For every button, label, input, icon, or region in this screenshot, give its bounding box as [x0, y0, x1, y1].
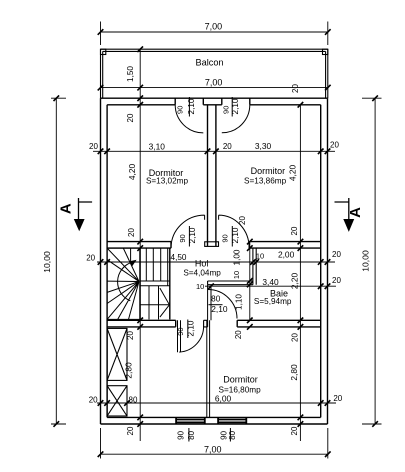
svg-text:20: 20 [290, 226, 299, 235]
svg-text:A: A [347, 207, 364, 218]
svg-text:2,10: 2,10 [188, 227, 197, 243]
svg-text:20: 20 [238, 216, 247, 225]
svg-text:10: 10 [196, 282, 204, 291]
dim line 20/3,10/20/3,30/20 [93, 150, 335, 152]
svg-text:S=13,86mp: S=13,86mp [244, 177, 287, 186]
svg-text:90: 90 [178, 234, 187, 242]
svg-text:4,20: 4,20 [288, 165, 298, 182]
door label balcony right 90/2,10 [222, 97, 241, 117]
svg-text:20: 20 [290, 426, 299, 435]
balcony rail left [101, 49, 103, 98]
thin double line through bottom room [207, 320, 210, 417]
dim line 3,40/20 [205, 285, 336, 287]
svg-text:2,10: 2,10 [187, 98, 196, 114]
middle wall between bedrooms [208, 105, 216, 246]
svg-text:20: 20 [89, 395, 98, 404]
svg-text:2,10: 2,10 [231, 227, 240, 243]
bedroom right door arc [219, 215, 250, 248]
svg-text:7,00: 7,00 [205, 21, 223, 31]
svg-text:4,50: 4,50 [171, 253, 187, 262]
outer wall bottom [101, 417, 328, 424]
svg-text:90: 90 [222, 106, 231, 114]
svg-text:20: 20 [126, 426, 135, 435]
ticks row y=286.2 [208, 283, 330, 289]
svg-text:3,40: 3,40 [262, 277, 279, 287]
dim balcony 7,00 line [101, 87, 328, 89]
svg-text:90: 90 [221, 234, 230, 242]
dim top 7,00 line [101, 22, 328, 46]
svg-text:1,00: 1,00 [233, 249, 242, 265]
svg-text:20: 20 [291, 84, 300, 93]
svg-text:80: 80 [129, 395, 138, 404]
dim column baie x=249.8 [249, 242, 251, 321]
section marker right [335, 198, 364, 232]
svg-text:A: A [57, 203, 74, 214]
svg-text:2,80: 2,80 [124, 362, 134, 379]
stair first tread line [130, 248, 132, 263]
ticks column x=249.8 [247, 239, 253, 330]
hall wall right segment [249, 242, 321, 249]
balcony corner post left [101, 49, 106, 54]
window label 2 90/80 [220, 428, 237, 442]
svg-text:10,00: 10,00 [361, 250, 371, 272]
pier x-box tall [107, 328, 127, 380]
bottom-room top wall right segment [237, 320, 321, 327]
ticks left 10,00 [54, 95, 60, 426]
ticks row y=262 [98, 259, 331, 265]
dimension ticks [54, 29, 378, 457]
stair walking line arc [118, 262, 132, 301]
top wall door jambs [175, 98, 250, 105]
dormitor door leaf [178, 320, 181, 352]
baie door leaf [208, 285, 211, 321]
door label bedroom right 90/2,10 [221, 226, 241, 247]
stair landing edge band [140, 281, 170, 286]
stair flight divider [139, 248, 141, 319]
balcony corner post right [323, 49, 328, 54]
svg-text:Dormitor: Dormitor [223, 375, 258, 385]
ticks column x=300 [298, 102, 304, 427]
window 1 glazing [176, 417, 205, 424]
svg-text:20: 20 [127, 228, 136, 237]
svg-text:2,80: 2,80 [289, 364, 299, 381]
balcony door arc right [222, 105, 250, 133]
svg-text:20: 20 [223, 142, 232, 151]
door label bedroom left 90/2,10 [178, 226, 197, 247]
hall wall left segment [107, 242, 171, 249]
stair upper treads [146, 248, 160, 281]
middle wall end cap [205, 242, 219, 247]
outer wall top inner line with door openings [107, 104, 321, 106]
ticks bottom 7,00 [98, 451, 331, 457]
svg-text:20: 20 [86, 253, 95, 262]
baie niche horizontal partition [208, 281, 253, 285]
door label dormitor 90/2,10 [176, 320, 196, 339]
svg-text:2,00: 2,00 [278, 249, 295, 259]
svg-text:20: 20 [126, 331, 135, 340]
ticks top 7,00 [98, 29, 331, 35]
svg-text:10,00: 10,00 [42, 251, 52, 273]
svg-text:20: 20 [333, 394, 342, 403]
svg-text:Dormitor: Dormitor [251, 166, 286, 176]
dim left 10,00 line [51, 98, 66, 424]
svg-text:20: 20 [332, 276, 341, 285]
dim right 10,00 line [362, 98, 382, 424]
outer wall right [321, 98, 328, 424]
svg-text:80: 80 [211, 294, 221, 303]
ticks balcony 7,00 [98, 85, 331, 91]
dim line 20/80 6,00 20 [97, 402, 336, 404]
svg-text:2,10: 2,10 [211, 304, 228, 314]
bedroom left door arc [171, 215, 205, 248]
balcony rail top [101, 49, 328, 51]
dim bottom 7,00 line [101, 428, 328, 459]
svg-text:4,20: 4,20 [127, 164, 137, 181]
svg-text:20: 20 [89, 142, 98, 151]
svg-text:20: 20 [234, 330, 243, 339]
stair right flight outer edge [169, 248, 171, 319]
window 2 glazing [218, 417, 246, 424]
svg-text:7,00: 7,00 [204, 445, 222, 455]
svg-text:90: 90 [176, 327, 185, 335]
svg-text:20: 20 [330, 141, 339, 150]
svg-text:Balcon: Balcon [195, 58, 223, 68]
bottom-room top wall middle pier [204, 320, 208, 327]
stair winder radial fan [107, 248, 139, 319]
svg-text:S=4,04mp: S=4,04mp [183, 269, 221, 278]
svg-text:S=5,94mp: S=5,94mp [254, 297, 292, 306]
svg-text:S=13,02mp: S=13,02mp [146, 176, 189, 185]
dim column right x=300 [299, 105, 301, 441]
svg-text:2,10: 2,10 [231, 98, 240, 114]
svg-text:90: 90 [177, 430, 186, 439]
dimension lines [51, 22, 382, 459]
svg-text:80: 80 [228, 430, 237, 439]
svg-text:2,20: 2,20 [290, 273, 300, 290]
svg-text:10: 10 [232, 271, 241, 279]
ticks right 10,00 [372, 95, 378, 426]
outer wall left [101, 98, 108, 424]
ticks row y=151 [98, 149, 331, 155]
stair right stringer inner line [167, 248, 169, 286]
stair walking-line arrowhead [130, 260, 137, 266]
pier x-box short [107, 386, 127, 416]
dim line 20/4,50/10/2,00/20 [97, 261, 335, 263]
baie niche vertical partition [253, 248, 256, 285]
stair lower treads [140, 286, 170, 320]
ticks row y=403 [98, 400, 331, 406]
svg-text:Hol: Hol [195, 259, 209, 269]
stair break diagonals [160, 288, 170, 317]
svg-text:3,10: 3,10 [149, 141, 166, 151]
svg-text:20: 20 [291, 333, 300, 342]
svg-text:20: 20 [126, 113, 135, 122]
baie door arc [208, 290, 237, 319]
svg-text:7,00: 7,00 [205, 78, 223, 88]
svg-text:2,10: 2,10 [187, 320, 196, 336]
svg-text:3,30: 3,30 [255, 141, 272, 151]
svg-text:90: 90 [176, 106, 185, 114]
svg-text:80: 80 [187, 430, 196, 439]
door label balcony left 90/2,10 [176, 97, 197, 117]
door label baie 80/2,10 [209, 294, 228, 314]
section marker left [57, 198, 92, 231]
svg-text:1,50: 1,50 [126, 66, 135, 82]
svg-text:20: 20 [332, 250, 341, 259]
window label 1 90/80 [177, 428, 196, 442]
balcony rail right [326, 49, 328, 98]
svg-text:1,10: 1,10 [235, 294, 244, 310]
dim column left x=140 [139, 49, 141, 441]
dormitor door arc [179, 326, 203, 352]
svg-text:6,00: 6,00 [215, 393, 232, 403]
bottom-room top wall left segment [107, 320, 176, 327]
svg-text:10: 10 [256, 252, 264, 261]
outer wall top [101, 97, 328, 99]
stair winder box [107, 248, 140, 319]
ticks column x=140 [137, 46, 143, 426]
svg-text:S=16,80mp: S=16,80mp [219, 386, 262, 395]
balcony door arc left [175, 105, 203, 133]
